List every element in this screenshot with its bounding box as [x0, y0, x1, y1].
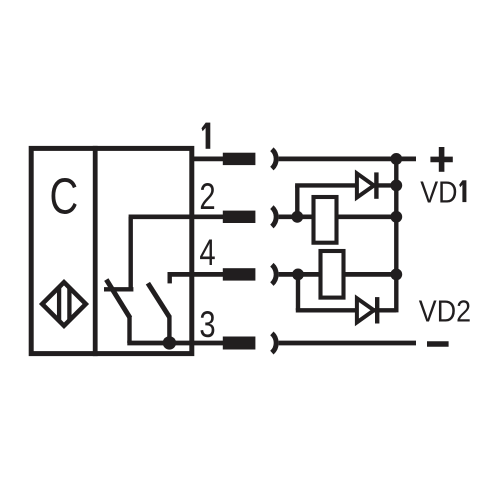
wire pin2 — [129, 214, 224, 219]
svg-text:4: 4 — [199, 232, 215, 273]
wire R2 to bus — [345, 272, 397, 277]
pin 1 terminal — [223, 153, 256, 165]
diamond inner bar left — [57, 287, 61, 322]
wire pin2 to R1 — [279, 214, 313, 219]
pin 3 terminal — [223, 337, 256, 350]
diode VD1 — [357, 172, 377, 198]
connector arc pin4 — [272, 265, 276, 284]
bus wire — [394, 159, 398, 313]
wire VD1 branch up — [295, 185, 299, 216]
NO pivot wire — [167, 316, 171, 344]
svg-text:2: 2 — [199, 177, 215, 218]
svg-text:VD2: VD2 — [419, 295, 471, 329]
wire - line — [279, 341, 416, 346]
divider line — [93, 146, 98, 356]
wire R1 to bus — [338, 214, 396, 219]
svg-text:VD: VD — [420, 176, 457, 210]
plus terminal symbol — [430, 147, 452, 172]
switch lever NC — [106, 280, 130, 318]
wire VD2 branch down — [296, 274, 300, 310]
connector arc pin2 — [272, 207, 276, 226]
wire pin1 — [190, 157, 224, 162]
wire + line — [279, 157, 416, 162]
wire VD1 line — [295, 183, 396, 187]
node bus-R2 — [390, 269, 402, 281]
wire pin4 stub — [167, 272, 171, 283]
sensor body outline — [31, 148, 192, 353]
resistor R2 — [321, 251, 344, 298]
svg-text:3: 3 — [199, 305, 215, 346]
node bus-VD1 — [390, 180, 402, 192]
node bus-plus — [390, 153, 402, 165]
resistor R1 — [314, 197, 337, 243]
pin 2 terminal — [223, 211, 256, 223]
wire pin4 to R2 — [279, 272, 320, 277]
wire pin2 vertical drop — [128, 217, 132, 289]
label pin 1 — [202, 123, 211, 149]
wire pin4 — [168, 272, 224, 277]
connector arc pin3 — [272, 333, 276, 352]
svg-text:C: C — [50, 168, 79, 225]
node bus-R1 — [390, 211, 402, 223]
node switch common — [163, 336, 176, 349]
node pin4 junction — [292, 269, 304, 281]
diamond inner bar right — [67, 287, 71, 322]
wire VD2 line — [296, 308, 397, 312]
connector arc pin1 — [272, 149, 276, 168]
contact bar NC switch — [104, 287, 133, 291]
switch lever NO — [148, 283, 170, 317]
pin 4 terminal — [223, 268, 256, 280]
NC pivot wire — [127, 316, 131, 343]
node pin2 junction — [291, 211, 303, 223]
minus terminal symbol — [427, 341, 449, 347]
wire pin3 — [127, 341, 223, 346]
sensor symbol diamond — [42, 282, 86, 326]
diode VD2 — [357, 297, 377, 323]
